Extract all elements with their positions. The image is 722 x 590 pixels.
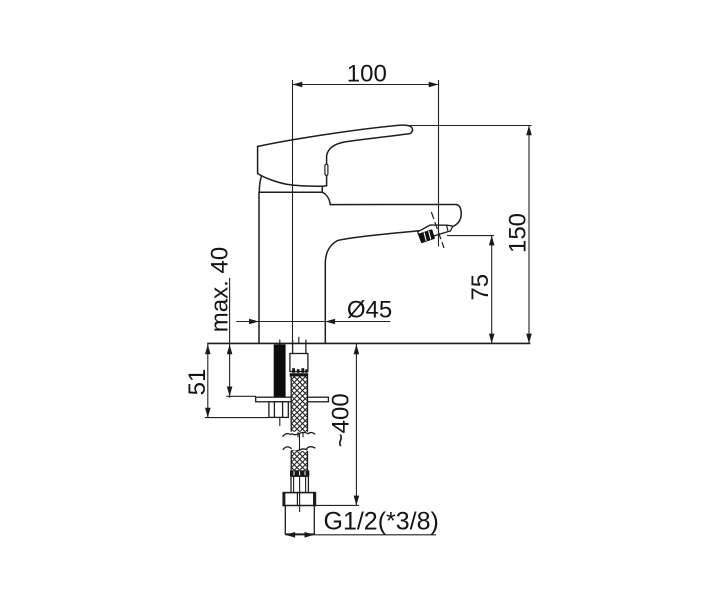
dim 100 bbox=[293, 80, 439, 343]
neck to rim connector bbox=[322, 185, 326, 188]
svg-text:~400: ~400 bbox=[327, 393, 354, 447]
aerator body bbox=[418, 225, 453, 241]
mounting nut bbox=[269, 402, 288, 418]
aerator end cap separator bbox=[447, 225, 448, 231]
body left shoulder arc bbox=[259, 177, 261, 192]
stud tip above deck bbox=[279, 340, 281, 345]
svg-text:G1/2(*3/8): G1/2(*3/8) bbox=[324, 508, 439, 536]
svg-text:max. 40: max. 40 bbox=[207, 247, 234, 332]
aerator assembly bbox=[418, 212, 453, 248]
hose stub below deck bbox=[293, 340, 306, 354]
svg-text:100: 100 bbox=[347, 61, 387, 88]
aerator centerline bbox=[431, 212, 444, 248]
fitting collar bbox=[291, 476, 308, 492]
dim max40 bbox=[227, 278, 257, 398]
deck line bbox=[207, 342, 530, 344]
stud centerline bbox=[279, 397, 281, 426]
lower crimp band bbox=[290, 470, 309, 476]
spout top edge and tip face bbox=[330, 205, 461, 227]
hose crimp band bbox=[290, 373, 309, 376]
handle skirt bottom bbox=[258, 174, 323, 187]
braided hose lower segment bbox=[291, 451, 307, 470]
aerator hatched tip bbox=[419, 230, 434, 243]
fitting thread end bbox=[285, 506, 314, 534]
rim to spout top curve bbox=[322, 192, 330, 204]
dim 75 bbox=[447, 236, 494, 344]
threaded shank (black) bbox=[274, 344, 286, 397]
hose crimp nut bbox=[290, 354, 308, 372]
fitting hex nut bbox=[283, 493, 315, 506]
lever handle bbox=[258, 125, 413, 186]
body right edge and spout underside sweep bbox=[325, 231, 418, 344]
rim right jog bbox=[321, 186, 323, 192]
braided hose upper segment bbox=[291, 376, 307, 431]
dim thread bbox=[285, 534, 436, 536]
dim 150 bbox=[406, 126, 532, 344]
faucet body outline bbox=[258, 125, 462, 343]
crimp teeth bbox=[292, 368, 295, 373]
fitting centerline bbox=[299, 476, 301, 512]
dim Ø45 bbox=[236, 321, 390, 323]
body left edge bbox=[258, 192, 260, 343]
washer plate bbox=[256, 397, 329, 402]
svg-text:51: 51 bbox=[184, 369, 211, 396]
hose centerline in break bbox=[299, 433, 301, 451]
svg-text:Ø45: Ø45 bbox=[347, 297, 392, 324]
hose liner lines bbox=[298, 432, 303, 437]
lever seam tick bbox=[325, 164, 328, 175]
hose break squiggles upper bbox=[283, 432, 316, 451]
hose break squiggles lower bbox=[283, 447, 292, 450]
dim 400 bbox=[316, 343, 359, 505]
svg-text:150: 150 bbox=[504, 213, 531, 253]
hose inner tail above deck bbox=[298, 337, 300, 344]
body rim band lower line bbox=[259, 191, 322, 193]
svg-text:75: 75 bbox=[467, 274, 494, 301]
handle left edge bbox=[257, 147, 259, 174]
dim 51 bbox=[205, 343, 269, 418]
